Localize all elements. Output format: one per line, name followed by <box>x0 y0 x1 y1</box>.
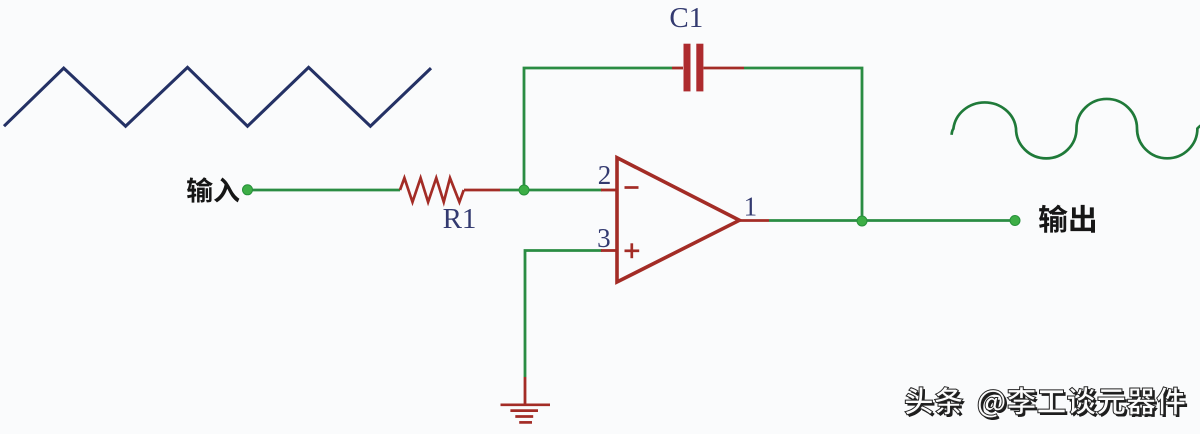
svg-text:3: 3 <box>597 223 611 253</box>
svg-text:C1: C1 <box>669 2 703 34</box>
svg-text:1: 1 <box>744 192 758 222</box>
svg-text:2: 2 <box>598 160 612 190</box>
svg-text:R1: R1 <box>443 203 477 235</box>
